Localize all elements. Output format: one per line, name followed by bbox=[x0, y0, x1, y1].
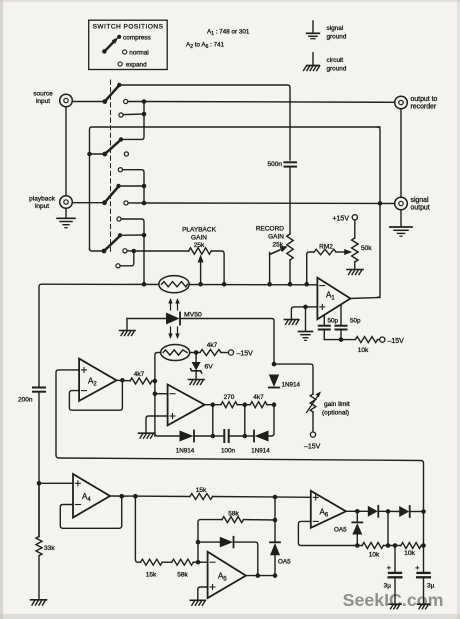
resistor 270 bbox=[221, 394, 250, 408]
svg-text:1N914: 1N914 bbox=[282, 382, 301, 389]
playback pot wiper bbox=[198, 255, 204, 285]
switch D lever bbox=[104, 236, 120, 251]
op-amp A1 bbox=[317, 278, 350, 320]
wire OA5 junction to 10k bbox=[357, 545, 362, 547]
node string left junction bbox=[211, 434, 216, 439]
wire bus to output to recorder bbox=[144, 101, 395, 104]
switch D expand contact bbox=[116, 264, 120, 268]
wire A2 plus input from control line bbox=[56, 370, 79, 456]
svg-text:1N914: 1N914 bbox=[251, 448, 270, 455]
svg-text:input: input bbox=[35, 203, 49, 210]
resistor 10k comp bbox=[355, 337, 379, 354]
switch B pole bbox=[102, 152, 107, 157]
switch B compress contact bbox=[119, 137, 123, 141]
svg-text:GAIN: GAIN bbox=[191, 235, 207, 242]
source input connector bbox=[33, 91, 72, 107]
capacitor 500n bbox=[268, 161, 296, 168]
wire 50k to ground bbox=[354, 262, 356, 269]
svg-text:+: + bbox=[387, 563, 392, 572]
node RM2 bottom junction bbox=[304, 282, 309, 287]
resistor 4k7 A2 output bbox=[130, 371, 155, 384]
wire control line A2 to A6 rail bbox=[56, 456, 424, 512]
svg-text:MV50: MV50 bbox=[184, 312, 202, 319]
wire gain limit to terminal bbox=[312, 412, 314, 432]
switch C compress contact bbox=[116, 184, 120, 188]
svg-text:OA5: OA5 bbox=[278, 559, 291, 566]
wire expand contact to bus bbox=[123, 113, 144, 116]
node OA5 bottom junction bbox=[355, 543, 360, 548]
capacitor 200n bbox=[18, 388, 45, 404]
rheostat gain limit bbox=[307, 392, 350, 417]
node A5 minus junction bbox=[196, 560, 201, 565]
svg-text:PLAYBACK: PLAYBACK bbox=[182, 227, 217, 234]
switch D normal contact bbox=[123, 249, 127, 253]
wire A2 output bbox=[117, 379, 131, 381]
svg-text:50p: 50p bbox=[350, 318, 361, 325]
wire switch C compress contact to bus bbox=[119, 185, 145, 187]
potentiometer 50k bbox=[352, 220, 373, 262]
wire gain limit branch bbox=[274, 364, 313, 394]
circuit ground under 50k bbox=[347, 270, 363, 275]
node OA5 anode junction bbox=[273, 573, 278, 578]
wire 200n down to A4 bbox=[38, 392, 40, 537]
signal ground under signal output bbox=[390, 210, 412, 236]
node playback pot right junction bbox=[222, 282, 227, 287]
svg-text:RM2: RM2 bbox=[319, 244, 333, 251]
svg-text:ground: ground bbox=[327, 65, 347, 72]
diode string left riser bbox=[212, 405, 214, 436]
svg-text:100n: 100n bbox=[221, 448, 236, 455]
svg-text:1N914: 1N914 bbox=[176, 448, 195, 455]
wire C normal contact to signal output line bbox=[128, 202, 144, 204]
switch C expand contact bbox=[117, 217, 121, 221]
node string mid junction bbox=[243, 434, 248, 439]
wire inter-diode riser bbox=[387, 511, 389, 545]
svg-text:3µ: 3µ bbox=[427, 583, 435, 590]
wire MV50 cathode to right vertical bbox=[180, 319, 274, 365]
svg-text:+15V: +15V bbox=[332, 215, 349, 222]
node A2 output junction bbox=[120, 378, 125, 383]
svg-text:–15V: –15V bbox=[237, 351, 254, 358]
wire switch D compress contact to bus bbox=[120, 234, 144, 236]
wire A1 output bbox=[350, 298, 380, 299]
svg-text:10k: 10k bbox=[369, 552, 380, 559]
diode 1N914 vertical bbox=[269, 375, 301, 389]
wire normal contact right bbox=[127, 250, 134, 252]
switch A lever bbox=[105, 86, 119, 102]
node playback wiper junction bbox=[198, 282, 203, 287]
node 10k mid junction b bbox=[393, 543, 398, 548]
record pot wiper bbox=[270, 246, 288, 284]
wire plus to circuit ground bbox=[291, 307, 305, 319]
switch A normal contact bbox=[124, 99, 128, 103]
node bus expand junction bbox=[142, 112, 147, 117]
terminal +15V bbox=[332, 215, 357, 223]
left bus vertical with corner to feedback line bbox=[90, 127, 381, 250]
node 10k mid junction a bbox=[386, 543, 391, 548]
node 4k7 right junction bbox=[272, 402, 277, 407]
node junction C compress bbox=[142, 184, 147, 189]
signal output connector bbox=[395, 197, 430, 212]
switch positions legend box bbox=[89, 20, 168, 69]
wire A3 minus input bbox=[155, 393, 168, 395]
capacitor 3u first bbox=[384, 546, 402, 605]
svg-text:circuit: circuit bbox=[327, 57, 344, 64]
terminal -15V bbox=[228, 350, 253, 358]
switch B lever bbox=[105, 140, 121, 154]
wire record pot bottom to A1 minus line bbox=[289, 260, 291, 284]
playback input connector bbox=[29, 196, 72, 211]
wire expand contact down to switch D bbox=[121, 219, 144, 235]
svg-text:playback: playback bbox=[29, 196, 55, 203]
resistor 15k top bbox=[190, 487, 311, 500]
circuit ground A5 plus bbox=[190, 600, 205, 605]
terminal -15V comp bbox=[380, 337, 404, 345]
op-amp A4 bbox=[73, 474, 110, 518]
wire compress record line bbox=[119, 85, 290, 160]
node OA5 top junction bbox=[273, 518, 278, 523]
wire A2 feedback loop bbox=[69, 380, 122, 410]
svg-text:ground: ground bbox=[327, 33, 347, 40]
node A4 output junction bbox=[119, 494, 124, 499]
svg-text:4k7: 4k7 bbox=[207, 342, 218, 349]
svg-text:10k: 10k bbox=[404, 550, 415, 557]
svg-text:15k: 15k bbox=[196, 487, 207, 494]
resistor RM2 bbox=[307, 244, 336, 285]
diode 1N914 left bbox=[176, 431, 213, 455]
svg-text:50k: 50k bbox=[361, 245, 372, 252]
svg-text:270: 270 bbox=[224, 394, 235, 401]
diode rectifier 1 bbox=[368, 506, 399, 517]
switch C normal contact bbox=[124, 201, 128, 205]
switch A pole bbox=[102, 99, 107, 104]
node rail 10k junction bbox=[421, 543, 426, 548]
wire playback input to switch C pole bbox=[72, 202, 104, 204]
svg-text:6V: 6V bbox=[205, 364, 214, 371]
resistor 58k top bbox=[222, 511, 275, 523]
wire bus segment to switch B compress contact bbox=[121, 102, 144, 140]
LDR2 ellipse over zigzag bbox=[161, 345, 190, 361]
svg-text:output to: output to bbox=[411, 96, 438, 103]
legend circuit ground symbol bbox=[304, 53, 347, 73]
wire shield source to playback bbox=[65, 107, 67, 196]
switch B expand contact bbox=[118, 168, 122, 172]
op-amp A6 bbox=[311, 491, 346, 528]
capacitor 50p right bbox=[336, 305, 362, 340]
svg-text:SeekIC.com: SeekIC.com bbox=[343, 590, 444, 610]
svg-text:–15V: –15V bbox=[388, 338, 405, 345]
circuit ground A1 plus left bbox=[284, 320, 299, 325]
wire OA5 branch vertical bbox=[274, 497, 276, 542]
wire A1 output vertical feedback rail bbox=[378, 127, 381, 298]
potentiometer RECORD GAIN 25k bbox=[256, 226, 293, 261]
node rail junction bbox=[421, 509, 426, 514]
wire A1 minus line bbox=[42, 283, 318, 286]
svg-text:3µ: 3µ bbox=[384, 583, 392, 590]
output to recorder connector bbox=[395, 96, 438, 111]
capacitor 50p left bbox=[319, 315, 339, 340]
switch A compress contact bbox=[117, 83, 121, 87]
wire A3 plus input to ground bbox=[146, 416, 168, 433]
node gain limit tee bbox=[272, 362, 277, 367]
wire A5 minus riser bbox=[198, 520, 222, 563]
svg-text:58k: 58k bbox=[177, 572, 188, 579]
node bus bottom junction bbox=[142, 282, 147, 287]
node left bus junction bbox=[87, 152, 92, 157]
wire comp caps bottom bbox=[324, 339, 355, 341]
node A6 output junction bbox=[355, 509, 360, 514]
resistor 10k first bbox=[362, 543, 401, 559]
svg-text:4k7: 4k7 bbox=[134, 371, 145, 378]
node record wiper junction bbox=[267, 282, 272, 287]
scan edge shading bbox=[0, 0, 3, 619]
node junction on signal line bbox=[142, 201, 147, 206]
node A4 branch junction bbox=[133, 494, 138, 499]
wire A5 output bbox=[246, 575, 275, 577]
wire source input to switch A pole bbox=[72, 101, 105, 103]
node junction D compress bbox=[142, 233, 147, 238]
svg-text:signal: signal bbox=[411, 197, 429, 204]
wire 500n to record gain pot bbox=[289, 167, 291, 234]
wire expand contact down to switch C bbox=[123, 170, 145, 203]
switch C pole bbox=[102, 200, 107, 205]
switch A expand contact bbox=[119, 113, 123, 117]
node OA5 branch junction bbox=[273, 495, 278, 500]
wire A1 minus line corner down left rail bbox=[39, 284, 42, 387]
svg-text:500n: 500n bbox=[268, 161, 283, 168]
svg-text:GAIN: GAIN bbox=[268, 234, 284, 241]
node diode fb output junction bbox=[255, 573, 260, 578]
node diode feedback tee bbox=[196, 540, 201, 545]
switch ganging dashed line bbox=[110, 80, 112, 253]
diode feedback A5 bbox=[198, 537, 258, 576]
svg-text:OA5: OA5 bbox=[334, 527, 347, 534]
node 270-4k7 junction bbox=[243, 402, 248, 407]
svg-text:SWITCH POSITIONS: SWITCH POSITIONS bbox=[93, 24, 164, 31]
diode rectifier 2 bbox=[399, 506, 423, 517]
diode OA5 near A5 bbox=[270, 542, 291, 575]
capacitor 100n bbox=[213, 430, 245, 455]
wire A5 plus to ground bbox=[198, 587, 208, 600]
resistor 15k bottom bbox=[141, 559, 172, 578]
svg-text:–15V: –15V bbox=[304, 444, 321, 451]
diode 1N914 right bbox=[245, 405, 274, 455]
svg-text:source: source bbox=[33, 91, 53, 98]
resistor 4k7 feedback bbox=[250, 394, 274, 408]
svg-text:15k: 15k bbox=[146, 572, 157, 579]
svg-text:normal: normal bbox=[129, 50, 149, 57]
wire A1 plus input bbox=[306, 306, 318, 308]
svg-text:200n: 200n bbox=[18, 397, 33, 404]
wire expand contact up to normal node bbox=[120, 251, 134, 266]
svg-text:25k: 25k bbox=[194, 242, 205, 249]
circuit ground at MV50 anode bbox=[120, 319, 136, 336]
circuit ground under 33k bbox=[31, 600, 47, 605]
LDR ellipse over zigzag bbox=[159, 276, 189, 293]
svg-text:(optional): (optional) bbox=[322, 410, 349, 417]
wire string left leg bbox=[155, 434, 179, 437]
node signal output junction bbox=[378, 201, 383, 206]
svg-text:output: output bbox=[411, 204, 430, 211]
svg-text:+: + bbox=[415, 563, 420, 572]
svg-text:RECORD: RECORD bbox=[256, 226, 284, 233]
resistor 4k7 to -15V bbox=[200, 342, 228, 356]
wire switch B pole to left bus bbox=[90, 153, 105, 155]
node record pot bottom bbox=[288, 282, 293, 287]
circuit ground under zener bbox=[189, 380, 205, 385]
wire shield recorder to signal output bbox=[400, 109, 402, 197]
node comp junction bbox=[339, 337, 344, 342]
wire switch D pole to left bus corner bbox=[90, 249, 105, 252]
wire A3 output bbox=[205, 404, 221, 406]
resistor 33k bbox=[36, 483, 55, 599]
wire bus down to LDR line bbox=[143, 235, 145, 284]
circuit ground at A3 plus bbox=[139, 433, 154, 438]
svg-text:compress: compress bbox=[123, 34, 151, 41]
switch D compress contact bbox=[118, 233, 122, 237]
node bus top junction bbox=[142, 99, 147, 104]
node zener junction bbox=[194, 350, 199, 355]
wire LDR2 right to 4k7 bbox=[190, 352, 200, 354]
svg-text:expand: expand bbox=[126, 62, 147, 69]
svg-text:58k: 58k bbox=[228, 511, 239, 518]
svg-text:4k7: 4k7 bbox=[253, 394, 264, 401]
wire plus to signal ground bbox=[305, 307, 307, 331]
svg-text:10k: 10k bbox=[358, 347, 369, 354]
wire LDR2 left down to A3 minus bbox=[155, 353, 161, 437]
op-amp A2 bbox=[79, 359, 116, 401]
node junction D normal bbox=[132, 249, 137, 254]
diode OA5 near A6 bbox=[334, 511, 362, 545]
signal ground A1 plus bbox=[299, 332, 313, 341]
circuit ground cap1 bbox=[389, 604, 401, 609]
potentiometer PLAYBACK GAIN 25k bbox=[134, 227, 224, 285]
svg-text:33k: 33k bbox=[44, 545, 55, 552]
svg-text:recorder: recorder bbox=[411, 103, 437, 110]
node minus line junction bbox=[153, 391, 158, 396]
wire rail down bbox=[423, 512, 425, 573]
op-amp A5 bbox=[208, 552, 246, 598]
node A4 plus junction bbox=[37, 481, 42, 486]
signal ground under playback input bbox=[57, 208, 75, 227]
wire A4 plus input bbox=[39, 482, 73, 484]
resistor 10k second bbox=[401, 543, 424, 558]
wire normal contact to bus bbox=[128, 101, 144, 103]
switch C lever bbox=[105, 187, 119, 203]
legend signal ground symbol bbox=[307, 21, 347, 40]
diode string mid riser bbox=[244, 405, 246, 436]
wire RM2 to 50k wiper arrow bbox=[336, 249, 352, 255]
node A1 plus junction bbox=[303, 305, 308, 310]
op-amp A3 bbox=[168, 385, 205, 426]
wire signal output line bbox=[144, 202, 395, 205]
arrows LDR1 light bbox=[168, 298, 179, 310]
arrows LDR2 light bbox=[168, 327, 179, 339]
svg-text:signal: signal bbox=[327, 25, 344, 32]
circuit ground cap2 bbox=[418, 604, 430, 609]
node A3 output junction bbox=[211, 402, 216, 407]
wire A4 output row bbox=[110, 495, 190, 498]
svg-text:input: input bbox=[36, 98, 50, 105]
resistor 58k bottom bbox=[172, 559, 208, 578]
LED MV50 bbox=[127, 312, 202, 325]
svg-text:gain limit: gain limit bbox=[324, 401, 350, 408]
node inter-diode junction bbox=[386, 509, 391, 514]
wire A4 feedback loop bbox=[60, 496, 121, 528]
node 4k7 to vertical junction bbox=[153, 379, 158, 384]
switch B normal contact bbox=[124, 152, 128, 156]
switch D pole bbox=[102, 249, 107, 254]
wire A4 branch down to A5 input row bbox=[135, 496, 140, 562]
capacitor 3u second bbox=[415, 563, 435, 604]
zener diode 6V bbox=[191, 353, 214, 380]
svg-text:50p: 50p bbox=[328, 318, 339, 325]
wire A6 output bbox=[346, 510, 368, 512]
wire A6 feedback loop bbox=[298, 521, 357, 545]
terminal -15V gain limit bbox=[304, 432, 321, 451]
